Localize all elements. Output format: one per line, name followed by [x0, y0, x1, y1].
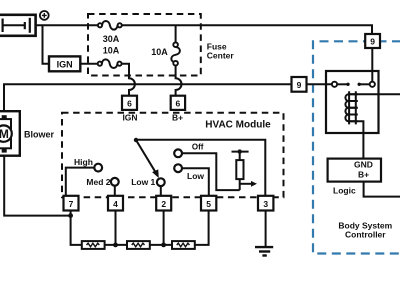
wire blower motor bottom to junction [4, 152, 70, 216]
label HVAC Module [205, 120, 271, 131]
connector 6 B+ [171, 96, 185, 110]
wire bus blower motor to connector 9 left [4, 84, 292, 115]
svg-text:4: 4 [113, 199, 118, 209]
label Logic [333, 186, 356, 196]
svg-text:Logic: Logic [333, 186, 356, 196]
connector 5 [201, 196, 216, 211]
wire relay coil to GND B+ box [348, 121, 363, 158]
wire switch common to connector 3 [136, 140, 265, 196]
svg-text:M: M [0, 127, 9, 141]
connector 3 [258, 196, 273, 211]
svg-text:9: 9 [297, 80, 302, 90]
blower resistor R2 [127, 241, 150, 249]
svg-text:9: 9 [370, 37, 375, 47]
svg-text:10A: 10A [103, 45, 120, 55]
fuse F1 30A [98, 21, 122, 30]
svg-text:10A: 10A [151, 47, 168, 57]
wire GND B+ box output to right edge [364, 182, 400, 197]
svg-text:3: 3 [263, 199, 268, 209]
fuse center dashed box [88, 14, 201, 76]
connector 2 [156, 196, 171, 211]
battery positive terminal symbol [40, 11, 49, 20]
connector 4 [108, 196, 123, 211]
svg-text:30A: 30A [103, 34, 120, 44]
fuse F3 10A vertical [171, 42, 180, 65]
switch contact Med 2 [111, 178, 119, 186]
wire connector 2 drop [163, 210, 165, 245]
svg-text:7: 7 [69, 199, 74, 209]
wire connector 9 top to relay contact [371, 48, 373, 82]
svg-text:High: High [74, 157, 93, 167]
HVAC module dashed box [62, 113, 284, 198]
relay U1 box [326, 71, 379, 133]
ground symbol [255, 247, 273, 255]
wire connector 7 down to resistor row [71, 210, 82, 245]
svg-text:Off: Off [192, 143, 204, 152]
label IGN under connector [122, 113, 137, 123]
body system controller dashed box [313, 41, 400, 253]
wire battery to fuse 30A [36, 24, 98, 26]
svg-text:5: 5 [206, 199, 211, 209]
label 10A fuse F3 [151, 47, 168, 57]
relay coil [345, 91, 357, 124]
switch contact Low [174, 164, 182, 172]
svg-text:Blower: Blower [24, 130, 55, 140]
svg-text:IGN: IGN [122, 113, 137, 123]
blower resistor R3 [172, 241, 195, 249]
label Fuse Center [207, 42, 235, 61]
relay contact left [332, 82, 350, 87]
HVAC resistor [236, 160, 243, 179]
blower motor M1 [0, 111, 20, 156]
svg-text:Controller: Controller [345, 229, 386, 239]
switch wiper arrow [136, 140, 158, 177]
wire resistor row R1 to R2 [105, 244, 127, 246]
switch contact High [94, 164, 102, 172]
svg-text:6: 6 [127, 98, 132, 108]
label Body System Controller [338, 221, 392, 240]
svg-text:B+: B+ [172, 113, 183, 123]
svg-text:B+: B+ [358, 169, 369, 179]
wire Low 1 contact to connector 2 [160, 186, 162, 196]
wire ignition switch to 10A fuse [80, 63, 98, 65]
battery B1 [0, 15, 36, 36]
junction dot below connector 4 [113, 243, 118, 248]
wire top rail to vertical 10A fuse [175, 25, 177, 42]
svg-text:2: 2 [161, 199, 166, 209]
label High [74, 157, 93, 167]
relay contact right [358, 82, 375, 87]
label Blower [24, 130, 55, 140]
connector 9 top [365, 34, 380, 48]
wire battery drop to ignition switch [43, 25, 50, 63]
label B+ under connector [172, 113, 183, 123]
svg-text:Med 2: Med 2 [86, 177, 110, 187]
label 10A fuse F2 [103, 45, 120, 55]
fuse F2 10A [98, 59, 122, 68]
svg-text:Low 1: Low 1 [131, 177, 155, 187]
connector 7 [64, 196, 79, 211]
label Off [192, 143, 204, 152]
wire vertical 10A fuse to connector 6 B+ with hop over bus [176, 66, 182, 97]
wire Low contact to connector 5 [182, 168, 209, 196]
wire resistor row R2 to R3 [150, 244, 172, 246]
wire Off contact to resistor bottom [182, 153, 240, 190]
junction dot below connector 2 [161, 243, 166, 248]
label 30A [103, 34, 120, 44]
svg-text:IGN: IGN [57, 59, 73, 69]
wire Med 2 contact to connector 4 [114, 186, 116, 196]
label Low 1 [131, 177, 155, 187]
svg-text:6: 6 [176, 98, 181, 108]
connector 6 IGN [122, 96, 137, 110]
svg-text:Low: Low [187, 171, 204, 181]
svg-text:HVAC Module: HVAC Module [205, 120, 271, 131]
wire connector 4 drop [115, 210, 117, 245]
wire High contact to connector 7 [66, 168, 95, 196]
junction dot at blower bottom wire [68, 213, 73, 218]
wire connector 9 left to relay contact [307, 83, 333, 85]
wire HVAC resistor bottom [239, 179, 241, 190]
wire T-bar to HVAC resistor top [239, 152, 241, 161]
label Low [187, 171, 204, 181]
switch pivot dot [134, 138, 138, 142]
svg-text:Center: Center [207, 51, 235, 61]
arrow output from HVAC resistor [240, 181, 257, 187]
wire 30A fuse to connector 9 top [122, 25, 372, 34]
wire resistor row R3 up to connector 5 [195, 210, 209, 245]
GND B+ box [328, 159, 381, 182]
svg-text:GND: GND [354, 160, 373, 170]
switch contact Off [174, 149, 182, 157]
wire relay coil output right [348, 93, 400, 95]
switch contact Low 1 [157, 178, 165, 186]
ignition switch box IGN [49, 56, 80, 71]
connector 9 left [292, 77, 307, 92]
wire 10A fuse to connector 6 IGN with hop over bus [122, 64, 135, 96]
blower resistor R1 [82, 241, 105, 249]
wire connector 3 to ground [265, 210, 267, 247]
label Med 2 [86, 177, 110, 187]
node T-bar above HVAC resistor [232, 149, 249, 153]
